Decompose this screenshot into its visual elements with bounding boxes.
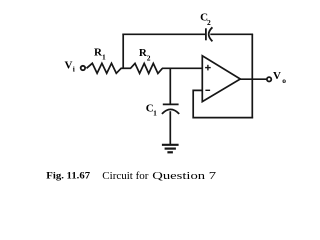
svg-text:2: 2	[147, 54, 151, 63]
op-amp U1	[202, 56, 240, 102]
resistor R2	[131, 63, 163, 73]
pin + (noninverting)	[205, 65, 211, 71]
capacitor C2	[206, 27, 213, 41]
wire riser node A to top rail	[122, 34, 124, 69]
label C1	[146, 102, 157, 117]
svg-text:Fig. 11.67: Fig. 11.67	[46, 171, 90, 181]
label C2	[200, 12, 211, 27]
input terminal Vi	[81, 66, 85, 70]
wire top rail left segment	[122, 33, 205, 35]
wire R1 to R2	[121, 67, 131, 69]
wire R2 to op-amp noninverting input	[162, 67, 203, 69]
pin - (inverting)	[205, 89, 210, 91]
svg-text:o: o	[282, 76, 286, 85]
caption	[46, 169, 216, 182]
label Vo	[273, 70, 286, 85]
label Vi	[65, 59, 75, 73]
svg-text:V: V	[273, 70, 281, 82]
svg-text:V: V	[65, 59, 73, 71]
wire node B down to C1	[169, 68, 171, 105]
wire op-amp output	[240, 78, 267, 80]
wire inverting input feedback loop	[193, 90, 253, 117]
wire right vertical (C2 return / feedback junction)	[251, 34, 253, 118]
wire C1 to ground	[169, 111, 171, 144]
svg-text:Circuit for: Circuit for	[102, 170, 148, 182]
label R2	[139, 47, 151, 63]
svg-text:Question 7: Question 7	[152, 169, 216, 182]
svg-text:2: 2	[207, 18, 211, 27]
ground	[162, 145, 179, 153]
output terminal Vo	[267, 77, 271, 81]
svg-text:i: i	[73, 64, 75, 73]
svg-text:1: 1	[153, 109, 157, 118]
svg-text:1: 1	[102, 53, 106, 62]
resistor R1	[87, 63, 122, 73]
label R1	[94, 46, 106, 61]
capacitor C1	[162, 104, 179, 114]
wire top rail right segment	[210, 33, 253, 35]
